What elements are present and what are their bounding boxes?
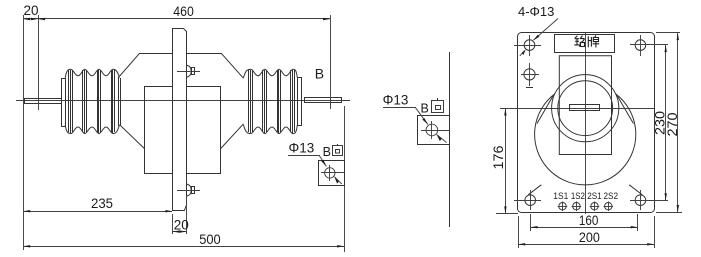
svg-text:460: 460 xyxy=(173,4,194,19)
svg-text:Φ13: Φ13 xyxy=(383,93,409,108)
svg-text:500: 500 xyxy=(199,232,221,247)
svg-text:B: B xyxy=(421,102,429,116)
svg-text:270: 270 xyxy=(665,113,680,137)
svg-text:200: 200 xyxy=(579,230,600,245)
svg-text:235: 235 xyxy=(91,196,113,211)
svg-text:176: 176 xyxy=(491,146,506,170)
svg-text:20: 20 xyxy=(174,218,189,233)
svg-text:1S1: 1S1 xyxy=(553,191,568,202)
svg-text:160: 160 xyxy=(579,213,599,228)
svg-text:2S2: 2S2 xyxy=(604,191,619,202)
svg-text:20: 20 xyxy=(24,3,39,18)
svg-text:B: B xyxy=(323,145,331,159)
svg-text:4-Φ13: 4-Φ13 xyxy=(518,4,554,19)
svg-text:B: B xyxy=(315,66,324,82)
svg-text:Φ13: Φ13 xyxy=(289,141,315,156)
svg-text:1S2: 1S2 xyxy=(571,191,585,202)
svg-text:2S1: 2S1 xyxy=(587,191,602,202)
